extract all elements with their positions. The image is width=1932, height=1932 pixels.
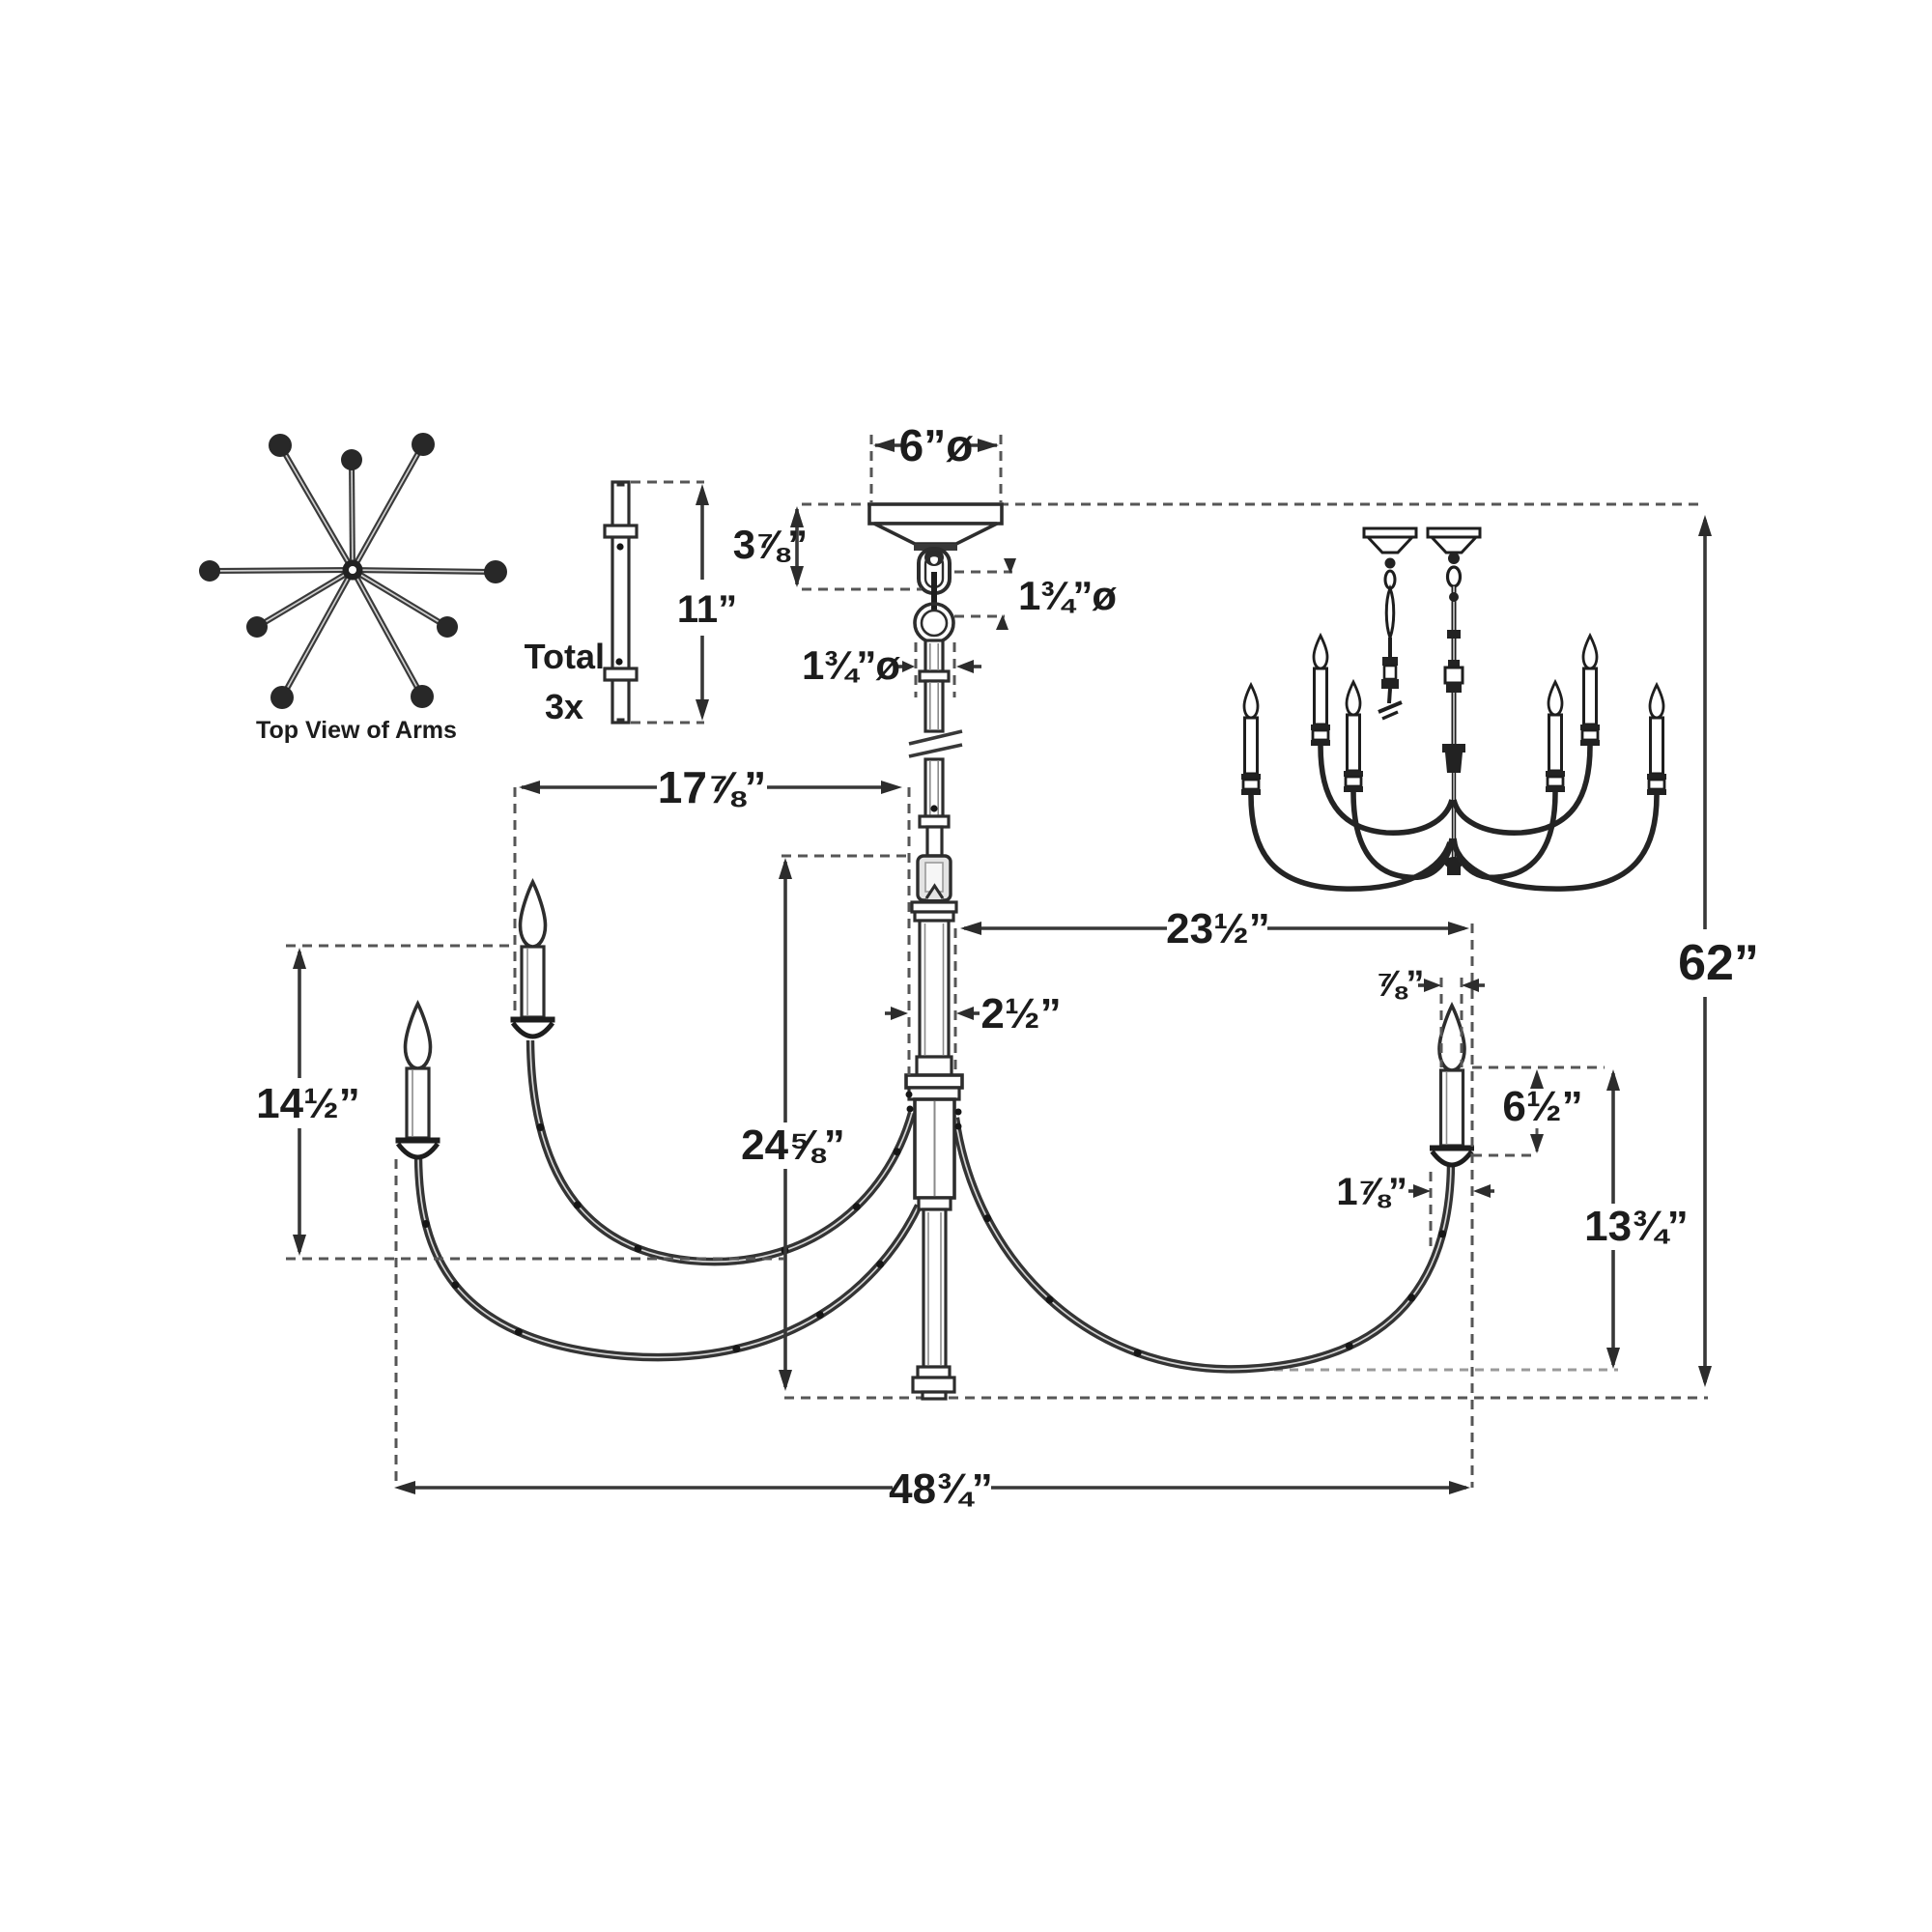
svg-text:17⅞”: 17⅞”: [658, 762, 767, 812]
svg-text:11”: 11”: [677, 588, 737, 631]
svg-text:3⅞”: 3⅞”: [733, 522, 807, 567]
svg-text:Total: Total: [525, 637, 605, 676]
svg-text:6”ø: 6”ø: [899, 420, 974, 470]
svg-text:13¾”: 13¾”: [1584, 1203, 1689, 1250]
svg-text:6½”: 6½”: [1502, 1083, 1582, 1130]
svg-text:62”: 62”: [1678, 935, 1759, 991]
svg-text:23½”: 23½”: [1166, 905, 1270, 952]
svg-text:2½”: 2½”: [980, 990, 1061, 1037]
svg-text:24⅝”: 24⅝”: [741, 1122, 845, 1169]
svg-text:1⅞”: 1⅞”: [1336, 1171, 1406, 1213]
svg-text:1¾”ø: 1¾”ø: [802, 642, 900, 688]
svg-text:1¾”ø: 1¾”ø: [1018, 573, 1117, 618]
svg-text:14½”: 14½”: [256, 1080, 360, 1127]
svg-text:48¾”: 48¾”: [889, 1465, 993, 1513]
svg-text:Top View of Arms: Top View of Arms: [256, 717, 457, 744]
svg-text:⅞”: ⅞”: [1376, 964, 1425, 1005]
svg-text:3x: 3x: [545, 687, 583, 726]
